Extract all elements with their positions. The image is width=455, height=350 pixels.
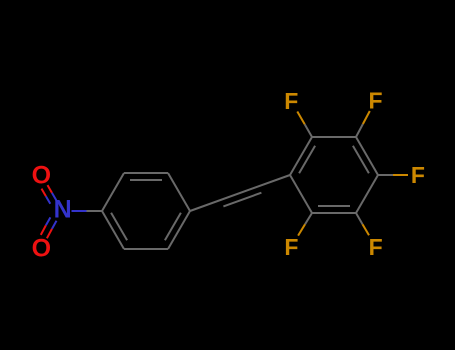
wire edge BR-BL (double) [312,212,356,214]
wire edge TR-R [168,173,190,211]
svg-text:O: O [32,161,51,189]
bond N=O upper (red halves) [42,185,52,196]
bond C-F top-left (gray half) [305,124,312,137]
bond C-F top-right (orange half) [363,111,370,124]
bond C-F bottom-left (gray half) [305,213,312,224]
wire edge TL-TR (double) [124,172,168,174]
bond C-F top-left (orange half) [297,112,304,125]
wire C=C inner line [223,193,261,207]
wire edge L-TL [102,173,124,211]
wire C-C main diagonal [190,175,290,211]
svg-text:F: F [368,88,382,114]
svg-text:F: F [369,234,383,260]
svg-text:F: F [411,162,425,188]
svg-text:O: O [32,234,51,262]
bond C-N (gray half) [87,210,103,212]
bond C-F bottom-right (gray half) [356,213,363,224]
svg-text:F: F [284,88,298,114]
wire edge R-BR [356,175,378,213]
wire edge TL-TR [312,136,356,138]
wire edge L-TL (double) [290,137,312,175]
bond N=O lower (red halves) [41,225,52,238]
bond C-F bottom-right (orange half) [363,224,370,235]
bond C-N (blue half) [72,210,87,212]
bond C-F right (orange half) [393,174,408,176]
wire edge BR-BL [124,248,168,250]
wire edge TR-R (double) [356,137,378,175]
svg-text:N: N [54,196,72,224]
wire edge BL-L [290,175,312,213]
bond C-F bottom-left (orange half) [298,224,305,235]
bond C-F right (gray half) [378,174,393,176]
bond N=O upper (blue halves) [46,193,56,204]
vinyl bridge CH=CH [190,175,290,211]
bond N=O lower (blue halves) [46,217,57,229]
wire edge BL-L (double) [102,211,124,249]
benzene ring left (4-nitrophenyl) [102,173,190,249]
benzene ring right (pentafluorophenyl) [290,137,378,213]
bond C-F top-right (gray half) [356,124,363,137]
svg-text:F: F [284,234,298,260]
wire edge R-BR (double) [168,211,190,249]
